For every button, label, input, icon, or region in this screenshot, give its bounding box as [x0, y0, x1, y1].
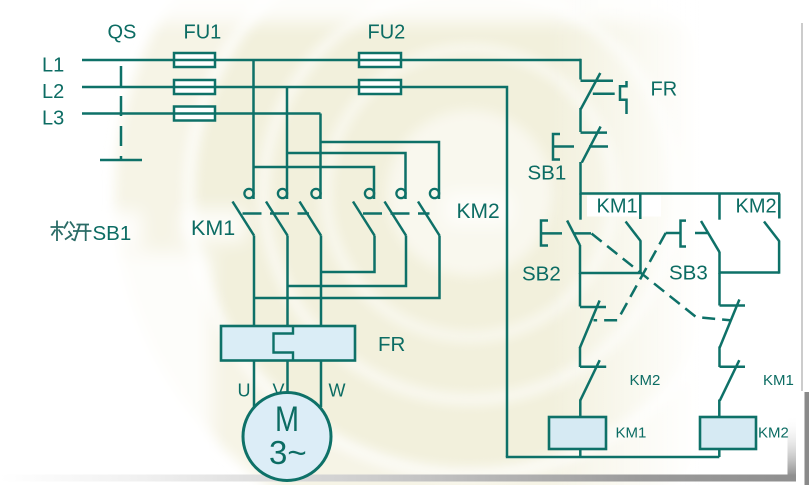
wire: node C to SB2-linked NC — [718, 273, 721, 306]
thermal relay FR NC contact lower tick — [593, 92, 615, 95]
wire: V leg to motor — [286, 361, 289, 394]
start button SB2 NO blade — [567, 221, 580, 246]
wire: phase line L3 — [82, 112, 321, 115]
thermal relay FR trip actuator — [620, 81, 627, 114]
start button SB3 cap — [681, 221, 687, 247]
button-linked NC right blade — [720, 300, 740, 348]
contactor KM2 main contact 2 — [385, 189, 407, 236]
node B junction rail — [580, 272, 641, 275]
wire: node B to SB3-linked NC — [579, 273, 582, 307]
label 松开 (hand drawn glyphs) — [51, 221, 92, 242]
wire: L2 branch to KM2 contact 2 — [287, 153, 406, 199]
stop button SB1 cap — [553, 134, 560, 160]
coil KM1 — [549, 417, 606, 449]
fuse FU2 top — [359, 53, 401, 67]
wire: W leg to motor — [320, 361, 323, 408]
wire: L3 drop to KM1 contact 3 — [319, 114, 322, 200]
fuse FU1 phase L3 — [174, 107, 215, 121]
wire: KM2 NC to coil KM1 — [579, 400, 582, 418]
svg-text:SB1: SB1 — [528, 162, 567, 185]
label box KM1 aux — [587, 196, 661, 217]
stop button SB1 NC lower tick — [589, 145, 608, 148]
interlock KM1 NC blade — [720, 360, 740, 400]
wire: phase line L1 — [82, 59, 581, 62]
wire: KM2 contact 3 crossover to U leg — [254, 236, 440, 299]
start button SB3 NO blade — [701, 221, 720, 252]
stop button SB1 NC top tick — [581, 131, 608, 134]
wire: SB1 to node A — [579, 162, 582, 195]
svg-text:KM1: KM1 — [763, 372, 794, 389]
wire: SB3 to node C — [718, 252, 721, 274]
svg-text:L3: L3 — [42, 108, 64, 130]
interlock KM1 NC tick — [720, 365, 746, 368]
disconnect switch QS dashed linkage — [120, 66, 123, 160]
contactor KM2 latch NO blade — [764, 222, 779, 242]
contactor KM1 main contact 1 — [233, 189, 255, 236]
start button SB2 tick — [574, 232, 592, 235]
wire: L1 corner down into control branch — [579, 59, 582, 80]
contactor KM1 linkage dashed — [243, 212, 310, 215]
svg-text:U: U — [238, 381, 251, 401]
wire: rail to SB2 — [579, 194, 582, 220]
thermal relay FR heater box — [221, 326, 355, 361]
svg-text:SB2: SB2 — [522, 263, 561, 286]
start button SB2 rod — [541, 232, 562, 235]
wire: KM1 contact 1 down to FR box — [253, 236, 256, 327]
coil KM2 — [700, 417, 756, 449]
fuse FU1 phase L2 — [174, 80, 215, 94]
svg-text:KM2: KM2 — [736, 196, 777, 218]
stop button SB1 rod — [553, 145, 574, 148]
contactor KM1 latch NO blade — [626, 222, 641, 242]
wire: L1 drop to KM1 contact 1 — [252, 60, 255, 199]
label box KM2 aux — [727, 196, 783, 216]
contactor KM1 main contact 3 — [300, 189, 322, 236]
svg-text:KM2: KM2 — [457, 200, 500, 223]
svg-text:FR: FR — [378, 333, 405, 356]
node A horizontal rail — [581, 192, 781, 195]
svg-text:KM1: KM1 — [597, 196, 638, 218]
svg-text:KM1: KM1 — [191, 216, 235, 240]
thermal relay FR heater symbol — [274, 327, 294, 360]
wire: KM2 contact 2 crossover to V leg — [288, 236, 407, 287]
svg-text:W: W — [329, 381, 346, 401]
svg-text:FR: FR — [651, 79, 678, 101]
svg-text:QS: QS — [108, 22, 137, 44]
wire: L3 branch to KM2 contact 3 — [321, 142, 440, 199]
stop button SB1 NC blade — [582, 127, 601, 163]
wire: KM1 contact 2 down to FR box — [286, 236, 289, 327]
wire: bottom return rail — [506, 456, 720, 459]
button-linked NC right tick — [720, 304, 746, 307]
wire: L2 drop to KM1 contact 2 — [286, 87, 289, 199]
wire: coil KM1 to bottom rail — [579, 449, 582, 457]
svg-text:KM2: KM2 — [630, 372, 661, 389]
wire: right NC to KM1 interlock — [718, 347, 721, 368]
button-linked NC left tick — [580, 306, 606, 309]
disconnect switch QS bottom bar — [100, 159, 142, 162]
svg-text:FU2: FU2 — [368, 22, 406, 44]
fuse FU1 phase L1 — [174, 53, 215, 67]
fuse FU2 bottom — [359, 80, 401, 94]
wire: KM2 latch to node C — [778, 241, 781, 274]
interlock KM2 NC blade — [580, 360, 600, 400]
wire: rail to KM2 latch — [778, 194, 781, 219]
wire: coil KM2 to bottom rail — [718, 449, 721, 457]
contactor KM2 main contact 1 — [353, 189, 375, 236]
wire: U leg to motor — [253, 361, 256, 408]
contactor KM2 linkage dashed — [363, 212, 430, 215]
wire through FU1 fuses — [174, 60, 215, 114]
start button SB2 cap — [541, 221, 548, 246]
thermal relay FR NC contact top tick — [581, 79, 614, 82]
svg-text:KM2: KM2 — [758, 425, 789, 442]
thermal relay FR NC contact blade — [581, 73, 601, 109]
svg-text:SB1: SB1 — [93, 222, 132, 245]
svg-text:KM1: KM1 — [616, 425, 647, 442]
start button SB3 rod — [666, 232, 681, 235]
wire through FU2 fuses — [359, 60, 401, 87]
wire: left NC to KM2 interlock — [579, 347, 582, 367]
wire: rail to SB3 — [718, 194, 721, 220]
interlock KM2 NC tick — [580, 365, 606, 368]
contactor KM1 main contact 2 — [266, 189, 288, 236]
svg-text:L1: L1 — [42, 55, 64, 77]
wire: KM1 latch to node B — [639, 241, 642, 275]
svg-text:3~: 3~ — [269, 434, 307, 471]
wire: KM2 contact 1 crossover to W leg — [321, 236, 375, 273]
wire: KM1 NC to coil KM2 — [718, 400, 721, 418]
wire: rail to KM1 latch — [639, 194, 642, 220]
start button SB3 tick — [695, 232, 709, 235]
button-linked NC left blade — [580, 301, 600, 349]
button interlock dashed link SB2 to right NC — [592, 234, 731, 321]
motor M 3~ circle — [243, 393, 331, 481]
button interlock dashed link SB3 to left NC — [594, 233, 666, 320]
svg-text:FU1: FU1 — [184, 22, 222, 44]
node C junction rail — [720, 271, 780, 274]
svg-text:L2: L2 — [42, 81, 64, 103]
wire: L1 branch to KM2 contact 1 — [254, 167, 375, 199]
wire: SB2 to node B — [579, 245, 582, 274]
svg-text:SB3: SB3 — [669, 262, 708, 285]
wire: KM1 contact 3 down to FR box — [320, 236, 323, 327]
wire: FR to SB1 — [579, 108, 582, 132]
contactor KM2 main contact 3 — [418, 189, 440, 236]
wire: phase line L2 with corner down to control rail — [82, 87, 507, 457]
